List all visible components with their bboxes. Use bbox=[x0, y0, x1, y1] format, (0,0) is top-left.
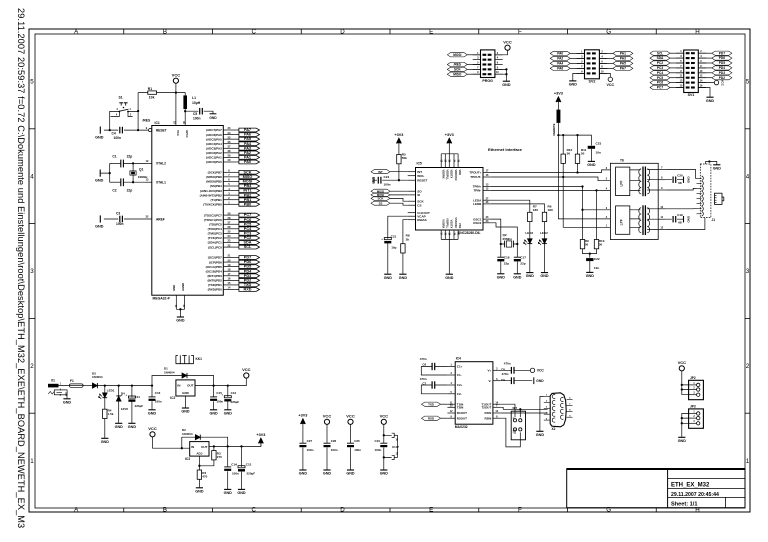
ground at J1 bbox=[713, 164, 720, 166]
net flag PA1 at SV2 bbox=[613, 51, 633, 55]
wire IC5 VSS to ground bbox=[448, 239, 450, 273]
wire TPOUT- net bbox=[491, 177, 611, 181]
svg-text:GND: GND bbox=[587, 163, 596, 167]
resistor R7 180 LED A bbox=[491, 200, 530, 239]
wire F1 to D3 bbox=[83, 385, 92, 387]
svg-text:(T0/XCK)PB0: (T0/XCK)PB0 bbox=[203, 202, 222, 206]
net flag MISO at IC5 SPI bbox=[371, 189, 390, 193]
svg-text:IN: IN bbox=[191, 445, 194, 449]
svg-text:AVCC: AVCC bbox=[185, 130, 189, 138]
svg-text:GND: GND bbox=[101, 440, 110, 444]
pin TPOUT+ of IC5 bbox=[483, 172, 491, 174]
svg-text:PD6: PD6 bbox=[244, 260, 251, 264]
svg-text:C17: C17 bbox=[520, 255, 526, 259]
wire TPIN+ net bbox=[491, 186, 583, 188]
T6 lower transformer windings bbox=[642, 205, 644, 235]
resistor R9 50 bbox=[580, 240, 584, 249]
ground at C18 bbox=[497, 273, 504, 275]
svg-text:(RXD)PD0: (RXD)PD0 bbox=[208, 288, 222, 292]
ferrite bead bbox=[557, 105, 559, 110]
svg-text:VCC: VCC bbox=[172, 72, 181, 77]
svg-text:H: H bbox=[695, 29, 699, 36]
svg-text:(TDO)PC4: (TDO)PC4 bbox=[208, 227, 222, 231]
svg-text:JP3: JP3 bbox=[690, 405, 696, 409]
power VCC feed for IC3 bbox=[150, 432, 155, 437]
svg-text:(TCK)PC2: (TCK)PC2 bbox=[208, 236, 222, 240]
svg-text:(TOSC2)PC7: (TOSC2)PC7 bbox=[204, 213, 222, 217]
svg-text:R2OUT: R2OUT bbox=[457, 416, 467, 420]
resistor R3 270 bbox=[199, 446, 214, 465]
IC5 VSS bottom pins bbox=[440, 230, 442, 239]
svg-text:470n: 470n bbox=[504, 362, 511, 366]
svg-text:(SCL)PC0: (SCL)PC0 bbox=[208, 245, 222, 249]
ground at crystal bbox=[99, 170, 101, 177]
svg-text:50k: 50k bbox=[402, 156, 407, 160]
capacitor C10 100n bbox=[383, 424, 385, 470]
pin CLKOUT of IC5 bbox=[408, 212, 416, 214]
svg-text:F: F bbox=[518, 29, 522, 36]
ground at LED3 bbox=[526, 272, 533, 274]
svg-text:100n: 100n bbox=[155, 400, 162, 404]
svg-text:IC1: IC1 bbox=[155, 121, 160, 125]
svg-text:GND: GND bbox=[209, 411, 218, 415]
svg-text:RXD: RXD bbox=[243, 288, 251, 292]
svg-text:220µF: 220µF bbox=[135, 404, 144, 408]
ground at C26 bbox=[323, 469, 330, 471]
net flag SDA at SV1 bbox=[650, 56, 670, 60]
svg-text:Sheet: 1/1: Sheet: 1/1 bbox=[671, 502, 697, 508]
svg-text:C4: C4 bbox=[112, 131, 116, 135]
svg-text:VDDTX: VDDTX bbox=[449, 170, 453, 179]
connector PROG (ISP header) bbox=[473, 54, 481, 56]
svg-text:220µF: 220µF bbox=[231, 400, 240, 404]
svg-text:(T1)PB1: (T1)PB1 bbox=[210, 198, 222, 202]
pin V- of IC4 bbox=[493, 380, 501, 382]
pin TPIN- of IC5 bbox=[483, 189, 491, 191]
svg-text:2: 2 bbox=[746, 363, 750, 370]
svg-text:VCC: VCC bbox=[176, 130, 180, 136]
svg-text:LED1: LED1 bbox=[107, 389, 115, 393]
J1 RJ45 icon bbox=[715, 193, 723, 204]
svg-text:180: 180 bbox=[533, 208, 538, 212]
svg-text:IC5: IC5 bbox=[417, 161, 422, 165]
svg-text:C26: C26 bbox=[331, 439, 337, 443]
svg-text:RESET: RESET bbox=[417, 178, 427, 182]
svg-text:+3V3: +3V3 bbox=[298, 414, 307, 418]
pin CS of IC5 bbox=[408, 204, 416, 206]
svg-text:(ADC4)PA4: (ADC4)PA4 bbox=[206, 142, 222, 146]
svg-text:Q1: Q1 bbox=[139, 167, 144, 171]
svg-text:GND: GND bbox=[128, 425, 137, 429]
svg-text:PD2: PD2 bbox=[244, 278, 251, 282]
capacitor C4 100n bbox=[104, 129, 149, 131]
resistor R11 50 bbox=[577, 135, 579, 172]
pin R2IN of IC4 bbox=[493, 417, 501, 419]
svg-text:PA7: PA7 bbox=[620, 67, 626, 71]
svg-text:2: 2 bbox=[30, 363, 34, 370]
capacitor C24 100n on reset bbox=[374, 179, 408, 181]
svg-text:10k: 10k bbox=[149, 95, 155, 99]
resistor R12 50 bbox=[562, 135, 564, 177]
svg-text:X2: X2 bbox=[552, 427, 556, 431]
svg-text:SI: SI bbox=[417, 193, 420, 197]
svg-text:PA4: PA4 bbox=[557, 62, 563, 66]
svg-text:(AIN0-INT2)PB2: (AIN0-INT2)PB2 bbox=[200, 193, 223, 197]
resistor R8 2k on RBIAS bbox=[403, 220, 408, 274]
capacitor C8 470n bbox=[501, 369, 531, 371]
wire VCC to IC1 pin 10 bbox=[175, 83, 177, 125]
svg-text:(INT0)PD2: (INT0)PD2 bbox=[207, 279, 222, 283]
power VCC at C25 bbox=[348, 419, 353, 424]
ground at SV2 bbox=[569, 80, 576, 82]
svg-text:SDA: SDA bbox=[657, 56, 664, 60]
wire T6 pin12 to J1 bbox=[666, 218, 705, 230]
svg-text:S1: S1 bbox=[119, 96, 123, 100]
svg-text:PA4: PA4 bbox=[244, 142, 252, 146]
pin OSC2 of IC5 bbox=[483, 222, 491, 224]
svg-text:VCC: VCC bbox=[148, 426, 157, 431]
svg-text:(ADC3)PA3: (ADC3)PA3 bbox=[206, 146, 222, 150]
svg-text:GND: GND bbox=[371, 177, 375, 185]
svg-text:VCC: VCC bbox=[323, 414, 332, 419]
wire J1 shield to ground bbox=[706, 162, 717, 165]
svg-text:GND: GND bbox=[182, 391, 190, 395]
net flag PD4 at SV1 bbox=[712, 66, 732, 70]
svg-text:RXD: RXD bbox=[428, 416, 434, 420]
svg-text:XTAL1: XTAL1 bbox=[156, 181, 166, 185]
pin R1IN of IC4 bbox=[493, 412, 501, 414]
net flag PC7 at SV1 bbox=[650, 85, 670, 89]
svg-text:PA5: PA5 bbox=[244, 137, 251, 141]
power VCC at SV2 pin10 bbox=[599, 73, 610, 77]
svg-text:VCC: VCC bbox=[503, 39, 512, 44]
capacitor C16 100n bbox=[151, 386, 153, 410]
svg-text:ETH_EX_M32: ETH_EX_M32 bbox=[671, 483, 710, 489]
power VCC at C26 bbox=[324, 419, 329, 424]
capacitor C22 10n bbox=[586, 258, 593, 261]
ground at C4 bbox=[99, 127, 101, 134]
svg-text:1.5k: 1.5k bbox=[108, 412, 114, 416]
svg-text:GND: GND bbox=[195, 489, 204, 493]
capacitor C1 22p bbox=[120, 160, 122, 168]
capacitor C23 10n bbox=[588, 146, 595, 149]
pin C1+ of IC4 bbox=[447, 366, 455, 368]
svg-text:SV1: SV1 bbox=[688, 93, 695, 97]
net flag PA2 at SV2 bbox=[550, 56, 570, 60]
wire TPOUT+ net bbox=[491, 170, 611, 173]
svg-text:100n: 100n bbox=[116, 222, 124, 226]
svg-text:PA6: PA6 bbox=[557, 67, 563, 71]
svg-text:16MHz: 16MHz bbox=[138, 175, 148, 179]
svg-text:T2IN: T2IN bbox=[457, 406, 464, 410]
pin WOL of IC5 bbox=[408, 175, 416, 177]
svg-text:PB0: PB0 bbox=[244, 202, 251, 206]
ground at C23 bbox=[588, 160, 595, 162]
svg-text:1N4004: 1N4004 bbox=[182, 432, 193, 436]
IC5 VDD top pins bbox=[440, 154, 442, 168]
diode D3 1N4004 bbox=[92, 383, 97, 388]
net flag PA5 at SV2 bbox=[613, 61, 633, 65]
pin VCAP of IC5 bbox=[408, 215, 416, 217]
wire SV2 pin9 to ground bbox=[573, 73, 585, 80]
svg-text:GND: GND bbox=[502, 83, 511, 87]
power VCC at C10 bbox=[381, 419, 386, 424]
svg-text:ENC28J60-DIL: ENC28J60-DIL bbox=[458, 231, 481, 235]
svg-text:IC2: IC2 bbox=[170, 396, 175, 400]
svg-text:22p: 22p bbox=[520, 261, 525, 265]
svg-text:1: 1 bbox=[746, 458, 750, 465]
T6 low pass filter LPF lower bbox=[616, 206, 630, 234]
svg-text:C11: C11 bbox=[135, 395, 141, 399]
svg-text:68: 68 bbox=[678, 220, 682, 224]
ground at C12 bbox=[238, 488, 245, 490]
svg-text:2k: 2k bbox=[406, 238, 410, 242]
svg-text:GND: GND bbox=[380, 472, 389, 476]
svg-text:IN: IN bbox=[177, 384, 180, 388]
svg-text:(ADC1)PA1: (ADC1)PA1 bbox=[206, 156, 222, 160]
pin V+ of IC4 bbox=[493, 369, 501, 371]
svg-text:SCL: SCL bbox=[657, 51, 663, 55]
svg-text:C19: C19 bbox=[677, 213, 683, 217]
wire VCC input rail bbox=[97, 385, 152, 387]
svg-text:GND: GND bbox=[445, 276, 454, 280]
pin RESET of IC1 bbox=[149, 129, 152, 132]
svg-text:PC5: PC5 bbox=[657, 76, 663, 80]
svg-text:SDA: SDA bbox=[243, 241, 251, 245]
X2 pin stubs bbox=[544, 396, 550, 398]
net flag SS at IC5 SPI bbox=[371, 201, 390, 205]
pin T2IN of IC4 bbox=[447, 406, 455, 408]
svg-text:VCC: VCC bbox=[346, 414, 355, 419]
svg-text:C24: C24 bbox=[384, 175, 390, 179]
ground at R4 bbox=[101, 437, 108, 439]
resistor R6 180 LED B bbox=[491, 204, 545, 239]
svg-text:C25: C25 bbox=[354, 439, 360, 443]
net flag PA6 at SV2 bbox=[550, 66, 570, 70]
svg-text:VSS: VSS bbox=[458, 223, 462, 228]
power pins symbol IC4P bbox=[384, 435, 392, 457]
svg-text:100n: 100n bbox=[331, 448, 338, 452]
svg-text:F: F bbox=[518, 507, 522, 514]
fuse F1 bbox=[69, 384, 83, 387]
wire VCC output rail bbox=[195, 378, 246, 386]
svg-text:GND: GND bbox=[678, 439, 687, 443]
svg-text:(ADC2)PA2: (ADC2)PA2 bbox=[206, 151, 222, 155]
svg-text:VCC: VCC bbox=[721, 79, 725, 86]
capacitor C17 22p bbox=[514, 256, 521, 258]
svg-text:29.11.2007 20:45:44: 29.11.2007 20:45:44 bbox=[671, 492, 719, 498]
ground at C11 bbox=[128, 422, 135, 424]
T6 upper transformer windings bbox=[642, 167, 644, 197]
svg-text:5: 5 bbox=[746, 79, 750, 86]
svg-text:C16: C16 bbox=[155, 391, 161, 395]
svg-text:PA3: PA3 bbox=[620, 57, 626, 61]
svg-text:GND: GND bbox=[586, 274, 595, 278]
capacitor C11 220uF bbox=[131, 386, 133, 423]
svg-text:C2: C2 bbox=[112, 189, 116, 193]
svg-text:PA5: PA5 bbox=[620, 62, 626, 66]
svg-text:E: E bbox=[429, 29, 433, 36]
wire R9 R10 join to C22 bbox=[583, 249, 597, 258]
svg-text:R1OUT: R1OUT bbox=[457, 411, 467, 415]
svg-text:C12: C12 bbox=[246, 462, 252, 466]
svg-text:RBIAS: RBIAS bbox=[417, 218, 426, 222]
svg-text:LPF: LPF bbox=[620, 180, 624, 186]
svg-text:GND: GND bbox=[497, 275, 506, 279]
resistor R10 50 bbox=[594, 240, 598, 249]
net flag PD6 at SV1 bbox=[712, 56, 732, 60]
wire T6 pin9 to J1 bbox=[666, 188, 697, 190]
svg-text:V-: V- bbox=[488, 379, 491, 383]
net flag MOSI at IC5 SPI bbox=[371, 193, 390, 197]
svg-text:470n: 470n bbox=[420, 357, 427, 361]
svg-text:+3V3: +3V3 bbox=[554, 92, 563, 96]
svg-text:VCC: VCC bbox=[607, 83, 615, 87]
transformer T6 box bbox=[610, 163, 658, 239]
svg-text:VSSTX: VSSTX bbox=[449, 220, 453, 229]
svg-text:C6: C6 bbox=[422, 362, 426, 366]
net flag SCK at IC5 SPI bbox=[371, 196, 390, 200]
pin R1OUT of IC4 bbox=[447, 412, 455, 414]
svg-text:GND: GND bbox=[115, 425, 124, 429]
wire XTAL1 line bbox=[124, 181, 146, 183]
capacitor C3 100n on AREF bbox=[104, 218, 152, 220]
svg-text:C1-: C1- bbox=[457, 373, 462, 377]
svg-text:C22: C22 bbox=[594, 257, 600, 261]
power VCC at regulator output bbox=[244, 373, 249, 378]
svg-text:PA7: PA7 bbox=[244, 128, 251, 132]
svg-text:R2IN: R2IN bbox=[484, 416, 491, 420]
svg-text:100n: 100n bbox=[375, 448, 382, 452]
svg-text:50: 50 bbox=[567, 152, 571, 156]
svg-text:JP1: JP1 bbox=[512, 406, 518, 410]
svg-text:GND: GND bbox=[536, 379, 544, 383]
svg-text:GND: GND bbox=[384, 276, 393, 280]
svg-text:KK1: KK1 bbox=[196, 357, 203, 361]
inductor L1 10uH bbox=[176, 93, 185, 96]
crystal Q1 16MHz bbox=[132, 163, 134, 182]
svg-text:100n: 100n bbox=[354, 448, 361, 452]
ground at C13 bbox=[224, 409, 231, 411]
svg-text:PA2: PA2 bbox=[244, 151, 251, 155]
svg-text:(OC1A)PD5: (OC1A)PD5 bbox=[206, 265, 223, 269]
svg-text:GND: GND bbox=[95, 179, 104, 183]
svg-text:GND: GND bbox=[686, 216, 690, 224]
wire JP3 pins to ground bbox=[682, 414, 689, 437]
power VCC at C8 bbox=[530, 368, 534, 372]
pin RBIAS of IC5 bbox=[408, 219, 416, 221]
svg-text:(SS)PB4: (SS)PB4 bbox=[210, 184, 222, 188]
wire XTAL2 line bbox=[124, 162, 146, 164]
svg-text:470n: 470n bbox=[420, 377, 427, 381]
pin T1OUT of IC4 bbox=[493, 403, 501, 405]
net flag PA0 at SV2 bbox=[550, 51, 570, 55]
svg-text:29.11.2007 20:59:37 f=0.72 C: 29.11.2007 20:59:37 f=0.72 C:\Dokumente … bbox=[16, 8, 26, 528]
svg-text:E: E bbox=[429, 507, 433, 514]
svg-text:MOSI: MOSI bbox=[453, 53, 461, 57]
svg-text:C: C bbox=[251, 507, 256, 514]
svg-text:GND: GND bbox=[172, 285, 176, 291]
svg-text:PD5: PD5 bbox=[719, 61, 725, 65]
ground at SV1 bbox=[706, 96, 713, 98]
svg-text:C21: C21 bbox=[391, 234, 397, 238]
svg-text:INT: INT bbox=[378, 170, 383, 174]
pin C2- of IC4 bbox=[447, 393, 455, 395]
svg-text:RESET: RESET bbox=[156, 128, 167, 132]
net flag /RES at PROG bbox=[447, 62, 467, 66]
svg-text:GND: GND bbox=[513, 275, 522, 279]
ground at C19 bbox=[683, 216, 685, 222]
capacitor C15 100n bbox=[213, 386, 215, 410]
svg-text:OSC2: OSC2 bbox=[473, 221, 482, 225]
wire IC2 ground pin bbox=[185, 396, 187, 408]
svg-text:Ethernet interface: Ethernet interface bbox=[488, 147, 523, 152]
net flag PC6 at SV1 bbox=[650, 81, 670, 85]
svg-text:OUT: OUT bbox=[187, 384, 194, 388]
svg-text:B: B bbox=[163, 507, 167, 514]
svg-text:PC6: PC6 bbox=[657, 81, 663, 85]
svg-text:(AIN1-OC0)PB3: (AIN1-OC0)PB3 bbox=[200, 189, 222, 193]
pin C2+ of IC4 bbox=[447, 384, 455, 386]
svg-text:X1: X1 bbox=[51, 379, 55, 383]
svg-text:MISO: MISO bbox=[243, 175, 253, 179]
svg-text:PD4: PD4 bbox=[244, 269, 252, 273]
ground at IC2 bbox=[182, 407, 189, 409]
wire VCC to JP2 pins bbox=[682, 371, 689, 395]
wire TPOUT- to T6 pin1 bbox=[563, 177, 610, 227]
svg-text:PB4: PB4 bbox=[244, 184, 252, 188]
net flag PC4 at SV1 bbox=[650, 71, 670, 75]
diode D2 1N4004 bypass bbox=[182, 437, 228, 448]
wire MCU gnd pins bbox=[176, 295, 184, 316]
mcu IC1 MEGA32 body bbox=[152, 126, 224, 296]
svg-text:VSSOSC: VSSOSC bbox=[454, 217, 458, 228]
svg-text:R1: R1 bbox=[148, 87, 152, 91]
svg-text:MAX232: MAX232 bbox=[455, 425, 468, 429]
power VCC at JP2 bbox=[679, 366, 684, 371]
ground at C25 bbox=[347, 469, 354, 471]
svg-text:(TXD)PD1: (TXD)PD1 bbox=[208, 283, 222, 287]
net flag PC2 at SV1 bbox=[650, 61, 670, 65]
ground at PROG bbox=[503, 80, 510, 82]
ethernet jack J1 bbox=[700, 164, 711, 218]
wire bias bus bbox=[558, 135, 591, 145]
ground at C15 bbox=[210, 409, 217, 411]
svg-text:(ICP)PD6: (ICP)PD6 bbox=[209, 260, 222, 264]
jumper JP1 bbox=[511, 411, 525, 440]
svg-text:220µF: 220µF bbox=[247, 472, 256, 476]
svg-text:(ADC6)PA6: (ADC6)PA6 bbox=[206, 133, 222, 137]
wire TPIN+ to T6 pin3 and R9 bbox=[583, 187, 611, 240]
svg-text:(ADC7)PA7: (ADC7)PA7 bbox=[206, 128, 222, 132]
svg-text:MEGA32-P: MEGA32-P bbox=[153, 297, 171, 301]
svg-text:GND: GND bbox=[569, 83, 578, 87]
jumper JP2 bbox=[689, 380, 704, 399]
svg-text:GND: GND bbox=[181, 410, 190, 414]
net flag PC3 at SV1 bbox=[650, 66, 670, 70]
svg-text:GND: GND bbox=[299, 472, 308, 476]
svg-text:(MOSI)PB5: (MOSI)PB5 bbox=[206, 180, 222, 184]
capacitor C2 22p bbox=[120, 178, 122, 186]
svg-text:GND: GND bbox=[706, 99, 715, 103]
svg-text:ADJ: ADJ bbox=[196, 451, 202, 455]
junction on VCC line bbox=[175, 91, 177, 93]
title block bbox=[567, 469, 745, 508]
svg-text:IC4: IC4 bbox=[456, 357, 461, 361]
ground at JP3 bbox=[678, 436, 685, 438]
svg-text:PC2: PC2 bbox=[657, 61, 663, 65]
svg-text:(OC1B)PD4: (OC1B)PD4 bbox=[206, 269, 223, 273]
